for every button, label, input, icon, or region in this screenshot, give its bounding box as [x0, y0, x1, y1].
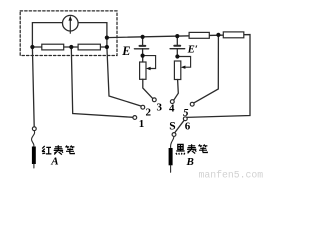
wire: inner loop bottom run: [32, 46, 107, 48]
red probe A body: [32, 147, 36, 165]
rheostat R5 wiper arrowhead: [146, 67, 151, 70]
junction node: loop bottom-right: [105, 45, 109, 49]
wire: bus to battery E: [142, 37, 144, 45]
wire: rheostat R5 to contact 3: [143, 79, 153, 98]
resistor R4 (top right, right): [223, 32, 244, 38]
svg-text:6: 6: [185, 120, 191, 132]
rheostat R6 body (under E'): [174, 61, 180, 80]
resistor R3 (top right, left): [189, 32, 209, 38]
label hanzi bi (pen) of 红表笔: [65, 146, 74, 154]
galvanometer G needle: [69, 18, 71, 33]
label hanzi biao (meter) of 黑表笔: [187, 144, 196, 153]
wire: battery E to node: [142, 49, 144, 56]
resistor R2 (inside box, right): [78, 44, 100, 50]
terminal A ring: [32, 127, 36, 131]
wire: flexible lead to red probe A: [32, 131, 35, 147]
contact 1: [133, 116, 137, 120]
label hanzi bi (pen) of 黑表笔: [198, 144, 207, 152]
contact 2: [141, 105, 145, 109]
rheostat R5 body (under E): [140, 62, 146, 79]
wire: inner loop top (left vertical, top run, right vertical): [32, 23, 107, 47]
wire: R3-R4 junction down to contact 5: [194, 35, 219, 103]
wire: bus to battery E': [176, 36, 178, 45]
svg-text:4: 4: [169, 103, 175, 115]
junction node: bus at battery E': [175, 34, 179, 38]
svg-text:3: 3: [157, 102, 163, 114]
junction node: loop bottom-left: [30, 45, 34, 49]
label hanzi hong (red) of 红表笔: [42, 146, 51, 154]
resistor R1 (inside box, left): [42, 44, 64, 50]
battery E positive plate: [134, 48, 148, 50]
black probe B body: [169, 148, 173, 165]
svg-text:2: 2: [146, 107, 152, 119]
svg-text:A: A: [50, 156, 58, 168]
wire: resistor tap to contact 1: [71, 47, 133, 117]
junction node: battery E / rheostat R5: [141, 54, 145, 58]
contact 6: [183, 117, 187, 121]
switch S wiper arm: [175, 120, 185, 133]
wire: node to rheostat R5: [142, 56, 144, 62]
wire: loop bottom-right junction to contact 2: [107, 47, 141, 106]
contact 5: [190, 102, 194, 106]
galvanometer G needle arrowhead: [69, 16, 73, 21]
rheostat R6 wiper arrowhead: [181, 66, 186, 69]
battery E' negative plate: [174, 45, 180, 47]
junction node: bus exit of box: [105, 36, 109, 40]
meter dashed enclosure box: [20, 11, 117, 56]
battery E negative plate: [140, 45, 146, 47]
wire: loop bottom-left junction down to terminal A: [32, 47, 34, 127]
svg-text:1: 1: [139, 118, 145, 130]
label hanzi hei (black) of 黑表笔: [176, 144, 185, 154]
junction node: bus at battery E: [141, 35, 145, 39]
rheostat R5 wiper link: [143, 56, 156, 69]
junction node: resistor tap: [69, 45, 73, 49]
rheostat R6 wiper link: [177, 57, 190, 68]
wire: top supply bus and right-side return to contact 6: [107, 35, 250, 118]
svg-text:E: E: [121, 44, 130, 58]
junction node: battery E' / rheostat R6: [175, 54, 179, 58]
svg-text:B: B: [186, 156, 194, 168]
contact 4: [170, 100, 174, 104]
red probe A tip: [33, 164, 35, 168]
svg-text:5: 5: [183, 107, 189, 119]
svg-text:S: S: [169, 120, 175, 132]
contact 3: [152, 98, 156, 102]
switch S pivot terminal: [172, 133, 176, 137]
black probe B tip: [170, 165, 172, 172]
wire: rheostat R6 to contact 4: [174, 80, 179, 101]
galvanometer G body: [63, 15, 79, 31]
wire: flexible lead to black probe B: [171, 137, 174, 149]
junction node: bus between R3 and R4: [216, 33, 220, 37]
label hanzi biao (meter) of 红表笔: [54, 145, 63, 154]
svg-text:E′: E′: [187, 44, 198, 56]
wire: battery E' to node: [176, 49, 178, 57]
battery E' positive plate: [170, 48, 185, 50]
svg-text:manfen5.com: manfen5.com: [199, 170, 264, 180]
